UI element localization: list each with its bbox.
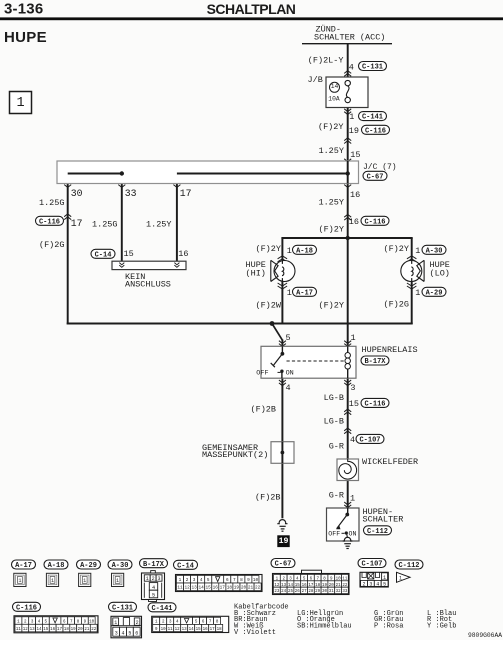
svg-text:C-116: C-116 (364, 401, 385, 409)
svg-text:1: 1 (349, 112, 354, 122)
svg-text:22: 22 (91, 628, 97, 632)
svg-text:A-29: A-29 (426, 289, 443, 297)
svg-text:C-131: C-131 (112, 604, 133, 612)
svg-text:24: 24 (281, 590, 287, 594)
svg-text:14: 14 (199, 586, 205, 591)
svg-text:31: 31 (329, 590, 335, 594)
svg-text:7: 7 (233, 578, 236, 583)
svg-text:18: 18 (217, 628, 223, 632)
svg-text:18: 18 (64, 628, 70, 632)
svg-text:10A: 10A (328, 96, 340, 103)
svg-text:11: 11 (177, 586, 183, 591)
svg-text:19: 19 (279, 537, 289, 546)
svg-text:OFF: OFF (328, 531, 340, 538)
svg-text:1: 1 (146, 576, 149, 582)
svg-text:(F)2L-Y: (F)2L-Y (308, 55, 344, 65)
svg-text:(F)2Y: (F)2Y (318, 122, 344, 132)
svg-text:19: 19 (349, 126, 359, 136)
svg-text:16: 16 (213, 586, 219, 591)
svg-text:C-107: C-107 (361, 561, 382, 569)
svg-text:29: 29 (315, 590, 321, 594)
svg-text:LG-B: LG-B (324, 393, 344, 403)
svg-text:Y :Gelb: Y :Gelb (427, 623, 456, 631)
svg-text:1: 1 (116, 578, 119, 584)
svg-text:6: 6 (226, 578, 229, 583)
svg-text:1: 1 (51, 578, 54, 584)
svg-text:HUPE: HUPE (4, 29, 47, 46)
svg-text:3: 3 (369, 582, 372, 588)
svg-text:A-30: A-30 (112, 562, 129, 570)
svg-text:15: 15 (350, 150, 360, 160)
svg-text:(HI): (HI) (246, 268, 266, 278)
svg-text:1: 1 (399, 576, 402, 582)
svg-text:1: 1 (351, 333, 356, 343)
svg-text:1: 1 (383, 575, 386, 581)
svg-text:1: 1 (16, 96, 24, 111)
svg-text:A-17: A-17 (296, 289, 313, 297)
svg-text:1.25Y: 1.25Y (318, 146, 344, 156)
svg-text:15: 15 (43, 628, 49, 632)
svg-text:17: 17 (57, 628, 63, 632)
svg-text:25: 25 (288, 590, 294, 594)
svg-text:6: 6 (135, 630, 138, 636)
svg-text:18: 18 (227, 586, 233, 591)
svg-text:13: 13 (182, 628, 188, 632)
svg-text:3: 3 (115, 630, 118, 636)
svg-text:C-116: C-116 (365, 127, 386, 135)
svg-text:20: 20 (241, 586, 247, 591)
svg-text:30: 30 (322, 590, 328, 594)
svg-text:16: 16 (203, 628, 209, 632)
svg-text:4: 4 (349, 62, 354, 72)
svg-text:16: 16 (50, 628, 56, 632)
svg-text:(F)2Y: (F)2Y (255, 244, 281, 254)
svg-text:ANSCHLUSS: ANSCHLUSS (125, 279, 171, 289)
svg-text:4: 4 (121, 630, 124, 636)
svg-text:A-18: A-18 (48, 562, 65, 570)
svg-text:33: 33 (125, 188, 137, 199)
svg-text:1: 1 (83, 578, 86, 584)
svg-text:12: 12 (23, 628, 29, 632)
svg-text:1.25Y: 1.25Y (318, 198, 344, 208)
svg-text:SB:Himmelblau: SB:Himmelblau (297, 623, 352, 631)
svg-text:3: 3 (350, 383, 355, 393)
svg-text:5: 5 (152, 592, 155, 598)
svg-text:10: 10 (253, 578, 259, 583)
svg-text:ON: ON (349, 531, 357, 538)
svg-text:1: 1 (179, 578, 182, 583)
svg-text:19: 19 (234, 586, 240, 591)
svg-text:28: 28 (308, 590, 314, 594)
svg-text:1: 1 (18, 578, 21, 584)
svg-text:A-29: A-29 (80, 562, 97, 570)
svg-text:14: 14 (36, 628, 42, 632)
svg-text:2: 2 (362, 582, 365, 588)
svg-text:(F)2G: (F)2G (39, 240, 65, 250)
svg-text:C-67: C-67 (275, 561, 292, 569)
svg-text:1: 1 (415, 288, 420, 298)
svg-text:23: 23 (274, 590, 280, 594)
svg-text:C-116: C-116 (16, 604, 37, 612)
svg-text:17: 17 (210, 628, 216, 632)
svg-text:G-R: G-R (329, 490, 344, 500)
svg-text:8: 8 (240, 578, 243, 583)
svg-text:C-141: C-141 (151, 605, 172, 613)
svg-text:17: 17 (180, 188, 192, 199)
svg-text:(F)2Y: (F)2Y (318, 300, 344, 310)
svg-text:C-67: C-67 (367, 173, 384, 181)
svg-text:12: 12 (175, 628, 181, 632)
svg-text:17: 17 (71, 218, 83, 229)
svg-text:2: 2 (186, 578, 189, 583)
svg-text:30: 30 (71, 188, 83, 199)
svg-text:33: 33 (342, 590, 348, 594)
svg-text:(F)2G: (F)2G (383, 299, 409, 309)
svg-text:C-131: C-131 (362, 64, 383, 72)
svg-text:(F)2W: (F)2W (255, 300, 281, 310)
svg-text:5: 5 (383, 582, 386, 588)
svg-text:SCHALTER (ACC): SCHALTER (ACC) (314, 32, 385, 42)
svg-text:C-141: C-141 (362, 114, 383, 122)
svg-text:16: 16 (178, 249, 188, 259)
svg-text:1: 1 (114, 620, 117, 626)
svg-text:17: 17 (220, 586, 226, 591)
svg-text:13: 13 (191, 586, 197, 591)
svg-text:11: 11 (168, 628, 174, 632)
svg-text:P :Rosa: P :Rosa (374, 623, 403, 631)
svg-text:1: 1 (287, 288, 292, 298)
svg-text:21: 21 (84, 628, 90, 632)
svg-text:C-116: C-116 (39, 218, 60, 226)
svg-text:MASSEPUNKT(2): MASSEPUNKT(2) (202, 450, 268, 460)
svg-text:C-14: C-14 (177, 562, 194, 570)
svg-text:4: 4 (200, 578, 203, 583)
svg-text:5: 5 (128, 630, 131, 636)
svg-text:3-136: 3-136 (4, 1, 43, 18)
svg-text:19: 19 (71, 628, 77, 632)
svg-text:15: 15 (206, 586, 212, 591)
svg-text:WICKELFEDER: WICKELFEDER (362, 457, 418, 467)
svg-text:10: 10 (161, 628, 167, 632)
svg-text:1.25G: 1.25G (39, 198, 65, 208)
svg-text:J/B: J/B (308, 75, 323, 85)
svg-text:SCHALTPLAN: SCHALTPLAN (207, 1, 296, 17)
svg-text:15: 15 (196, 628, 202, 632)
svg-text:(F)2Y: (F)2Y (383, 244, 409, 254)
svg-text:J/C (7): J/C (7) (363, 163, 397, 172)
svg-text:1.25G: 1.25G (92, 219, 118, 229)
svg-text:11: 11 (16, 628, 22, 632)
svg-text:20: 20 (78, 628, 84, 632)
svg-text:1: 1 (287, 246, 292, 256)
svg-text:G-R: G-R (329, 442, 344, 452)
svg-text:V :Violett: V :Violett (234, 629, 276, 637)
svg-text:B-17X: B-17X (364, 358, 386, 366)
svg-text:15: 15 (349, 399, 359, 409)
svg-text:3: 3 (157, 576, 160, 582)
svg-text:SCHALTER: SCHALTER (363, 515, 404, 525)
svg-text:16: 16 (349, 217, 359, 227)
svg-text:21: 21 (248, 586, 254, 591)
svg-text:9809G06AA: 9809G06AA (468, 632, 502, 639)
svg-text:(LO): (LO) (430, 268, 450, 278)
svg-text:ON: ON (286, 370, 294, 378)
svg-text:(F)2B: (F)2B (255, 492, 281, 502)
svg-text:2: 2 (136, 620, 139, 626)
svg-text:C-107: C-107 (359, 437, 380, 445)
svg-text:5: 5 (286, 333, 291, 343)
svg-text:22: 22 (255, 586, 261, 591)
svg-text:12: 12 (184, 586, 190, 591)
svg-text:14: 14 (331, 83, 339, 90)
svg-text:14: 14 (189, 628, 195, 632)
svg-text:4: 4 (376, 582, 379, 588)
svg-text:4: 4 (350, 435, 355, 445)
svg-text:10: 10 (89, 620, 95, 624)
svg-text:9: 9 (247, 578, 250, 583)
svg-text:4: 4 (286, 383, 291, 393)
svg-text:C-14: C-14 (95, 251, 112, 259)
svg-text:1.25Y: 1.25Y (146, 219, 172, 229)
svg-text:32: 32 (336, 590, 342, 594)
svg-text:13: 13 (30, 628, 36, 632)
svg-text:5: 5 (207, 578, 210, 583)
svg-text:LG-B: LG-B (324, 416, 344, 426)
svg-text:C-112: C-112 (398, 562, 419, 570)
svg-text:A-30: A-30 (426, 247, 443, 255)
svg-text:A-17: A-17 (15, 562, 32, 570)
svg-text:16: 16 (350, 190, 360, 200)
svg-text:C-112: C-112 (367, 528, 388, 536)
svg-text:26: 26 (295, 590, 301, 594)
svg-text:(F)2Y: (F)2Y (318, 225, 344, 235)
svg-text:15: 15 (124, 249, 134, 259)
svg-text:27: 27 (302, 590, 308, 594)
svg-text:A-18: A-18 (296, 247, 313, 255)
svg-text:C-116: C-116 (364, 218, 385, 226)
svg-text:3: 3 (193, 578, 196, 583)
svg-text:B-17X: B-17X (143, 561, 165, 569)
svg-text:(F)2B: (F)2B (251, 404, 277, 414)
svg-text:1: 1 (415, 246, 420, 256)
svg-text:2: 2 (152, 576, 155, 582)
svg-text:OFF: OFF (256, 370, 268, 378)
svg-text:HUPENRELAIS: HUPENRELAIS (362, 345, 418, 355)
